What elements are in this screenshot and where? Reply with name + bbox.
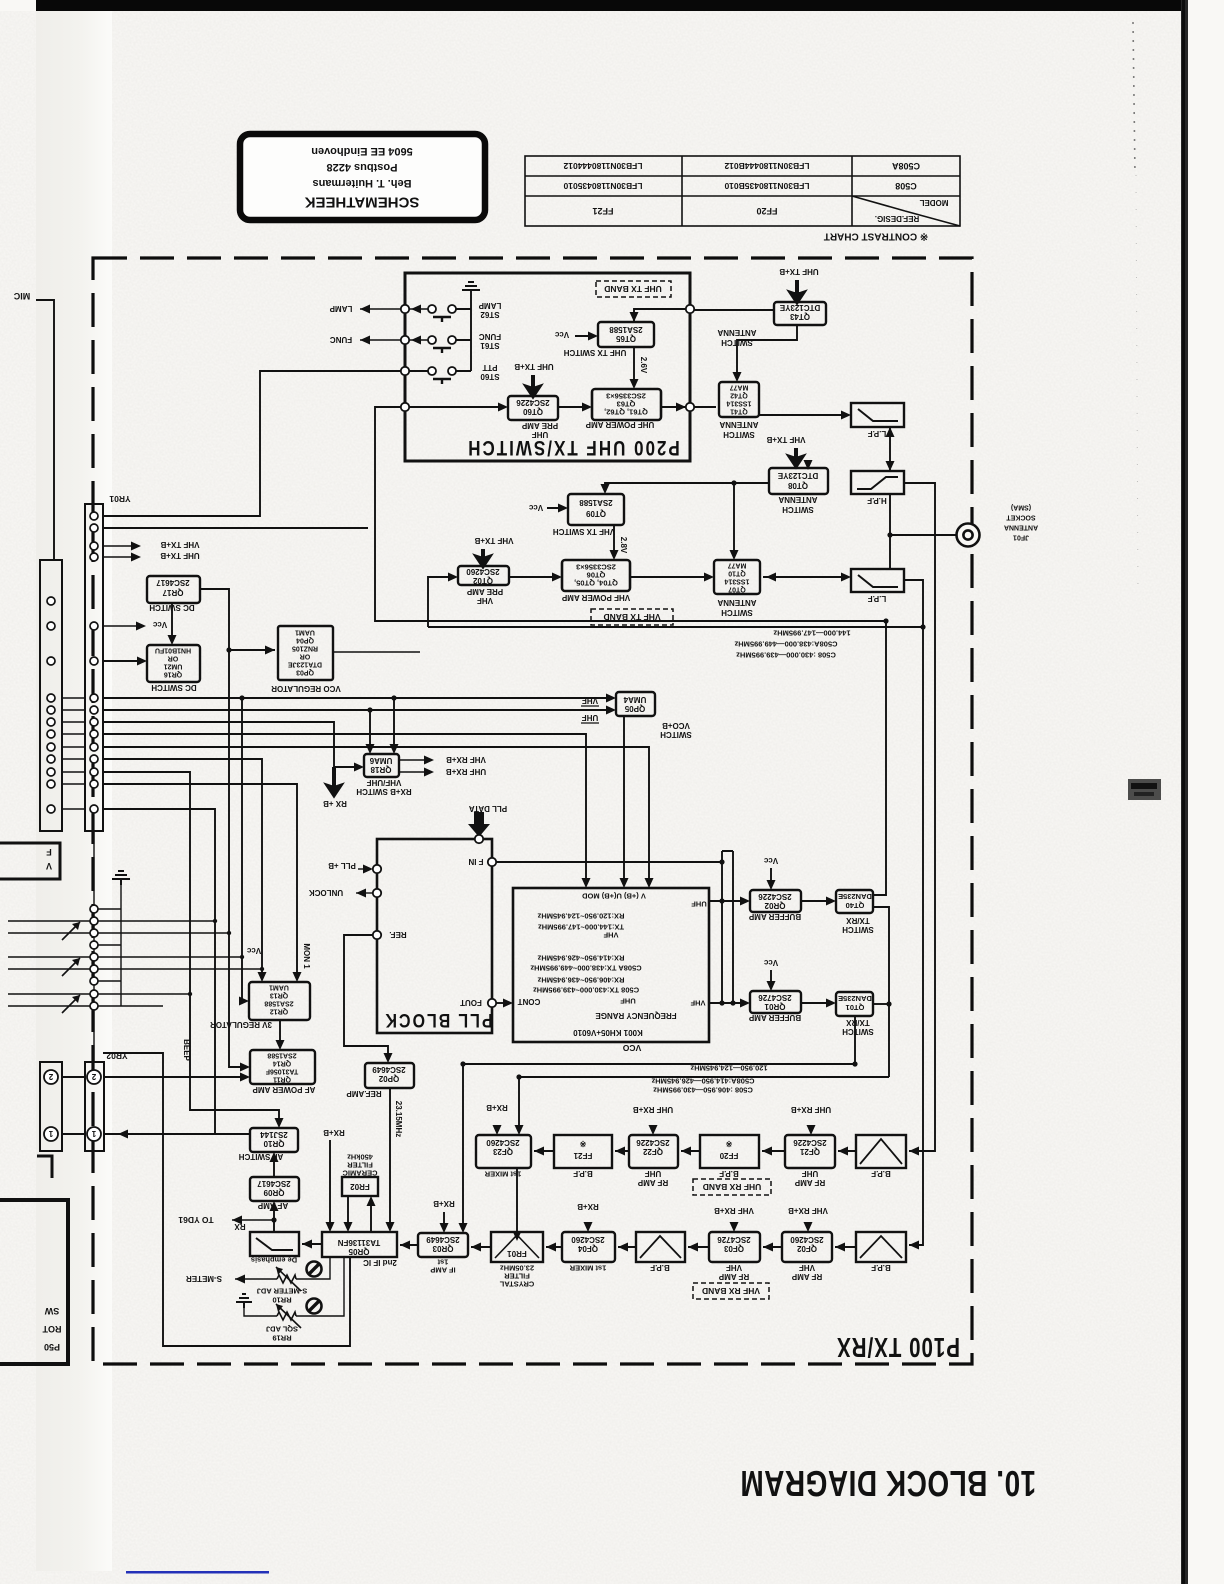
wire QT65 collector loop <box>634 309 686 322</box>
svg-text:ST60: ST60 <box>480 372 500 381</box>
svg-text:CONT: CONT <box>518 997 541 1006</box>
svg-text:2SC4726: 2SC4726 <box>717 1235 751 1244</box>
wire PLL REF to QP02 <box>344 935 388 1060</box>
filter H.P.F <box>851 471 904 494</box>
top scan bar <box>36 0 1182 11</box>
svg-text:PRE AMP: PRE AMP <box>466 587 503 596</box>
svg-text:※: ※ <box>725 1139 732 1148</box>
svg-text:C508A:414.950—426.945MHz: C508A:414.950—426.945MHz <box>651 1076 754 1085</box>
svg-text:2SC4726: 2SC4726 <box>758 993 792 1002</box>
svg-text:REF.DESIG.: REF.DESIG. <box>875 214 919 223</box>
potentiometer RR19 <box>277 1312 296 1320</box>
svg-text:UHF: UHF <box>645 1169 662 1178</box>
svg-text:2SA1588: 2SA1588 <box>579 498 613 507</box>
wire RX+B to QR03 <box>443 1212 445 1230</box>
svg-text:TX/RX: TX/RX <box>846 916 870 925</box>
svg-text:QT06: QT06 <box>587 571 606 580</box>
svg-text:LFB30N1180435B010: LFB30N1180435B010 <box>724 181 809 191</box>
wire Vcc to QT65 <box>575 335 595 337</box>
svg-text:UNLOCK: UNLOCK <box>309 888 343 897</box>
svg-text:QT41: QT41 <box>730 408 748 415</box>
wire VHF pre-amp input riser <box>428 577 455 627</box>
wire 2.6V QT65 to UHF PA <box>633 347 635 386</box>
svg-text:3V REGULATOR: 3V REGULATOR <box>210 1020 272 1029</box>
svg-text:TO YD61: TO YD61 <box>178 1215 213 1225</box>
svg-text:QR13: QR13 <box>270 992 288 999</box>
svg-text:(SMA): (SMA) <box>1011 504 1031 511</box>
svg-text:VHF TX+B: VHF TX+B <box>160 540 199 549</box>
antenna socket JF01 <box>957 524 980 547</box>
wire row734 to VCO V+B <box>103 734 586 885</box>
diode switch QT41/QT42 <box>719 382 759 417</box>
svg-text:ST62: ST62 <box>480 310 500 319</box>
svg-text:SWITCH: SWITCH <box>782 505 814 514</box>
svg-text:2SC4226: 2SC4226 <box>636 1138 670 1147</box>
de-emphasis curve <box>256 1238 293 1250</box>
svg-text:PTT: PTT <box>482 363 497 372</box>
svg-text:VHF TX+B: VHF TX+B <box>766 435 805 444</box>
svg-text:CRYSTAL: CRYSTAL <box>499 1279 534 1288</box>
L.P.F curve VHF <box>858 575 898 587</box>
svg-text:QR11: QR11 <box>273 1076 291 1083</box>
wire audio loop to QR05 <box>103 1053 350 1346</box>
wire row722 to QR18 and RX+B <box>103 722 361 790</box>
connector left cut strip B <box>40 1062 62 1151</box>
svg-text:1st MIXER: 1st MIXER <box>484 1169 521 1178</box>
wire QR17 to QR16 <box>171 603 173 642</box>
svg-text:RX+B: RX+B <box>323 1128 345 1137</box>
svg-text:RF AMP: RF AMP <box>794 1178 825 1187</box>
svg-text:MIC: MIC <box>13 291 30 301</box>
svg-text:QT42: QT42 <box>730 392 748 399</box>
wire QT01 bottom LO <box>463 1016 855 1230</box>
svg-text:1SS314: 1SS314 <box>726 400 751 407</box>
svg-text:UMA6: UMA6 <box>369 756 392 765</box>
wire VHF PA to QT07 <box>630 576 711 578</box>
ground SQL pot <box>236 1294 252 1308</box>
thick feed arrows TX+B <box>328 280 803 795</box>
amplifier UHF POWER AMP QT61-63 <box>592 389 661 420</box>
amplifier VHF POWER AMP QT04-06 <box>562 560 630 591</box>
wire VHF RX riser x923 <box>904 580 923 1245</box>
svg-text:2SC4260: 2SC4260 <box>571 1235 605 1244</box>
svg-text:VHF: VHF <box>690 998 705 1007</box>
stamp SCHEMATHEEK box <box>240 134 485 220</box>
svg-text:FF21: FF21 <box>592 206 613 216</box>
wire RX to YD61 branch <box>232 1219 274 1221</box>
switch QP05 VCO+B <box>616 692 655 716</box>
svg-text:QF03: QF03 <box>723 1244 744 1253</box>
svg-text:RF AMP: RF AMP <box>637 1178 668 1187</box>
wire QR17 feed <box>200 589 247 1067</box>
svg-text:OR: OR <box>300 653 311 660</box>
svg-text:DC SWITCH: DC SWITCH <box>149 603 195 612</box>
wire FR02 to QR05 <box>348 1196 371 1232</box>
svg-text:FF20: FF20 <box>719 1151 738 1160</box>
svg-text:P200 UHF TX/SWITCH: P200 UHF TX/SWITCH <box>466 435 680 458</box>
svg-text:DTC123YE: DTC123YE <box>777 471 818 480</box>
svg-text:YR01: YR01 <box>109 494 131 504</box>
wire S-METER pot <box>235 1257 330 1279</box>
svg-text:SOCKET: SOCKET <box>1006 514 1036 521</box>
svg-text:ANTENNA: ANTENNA <box>719 420 758 429</box>
wire QT02 to VHF PA <box>509 576 559 578</box>
svg-text:TX/RX: TX/RX <box>846 1018 870 1027</box>
svg-text:QR16: QR16 <box>164 671 182 678</box>
wire UHF RX riser x935 <box>904 483 935 1151</box>
wire ST62 LAMP out <box>360 308 428 310</box>
wire UHF LO to QF23 <box>519 1077 889 1132</box>
wire UHF pre-amp input <box>405 406 505 408</box>
wire pot rows left stubs <box>8 921 90 1006</box>
svg-text:5604 EE Eindhoven: 5604 EE Eindhoven <box>311 145 413 157</box>
amplifier QF02 <box>782 1232 832 1262</box>
transistor QT02 <box>458 566 509 585</box>
svg-text:C508 :406.950—430.995MHz: C508 :406.950—430.995MHz <box>653 1085 753 1094</box>
svg-text:RNZ105: RNZ105 <box>292 645 318 652</box>
PLL DATA arrow <box>468 812 490 837</box>
svg-text:F: F <box>46 847 52 857</box>
svg-text:2: 2 <box>48 1072 53 1081</box>
svg-text:VHF: VHF <box>799 1263 815 1272</box>
B.P.F bowtie VHF <box>860 1236 902 1258</box>
svg-text:QR17: QR17 <box>162 588 183 597</box>
svg-text:DAN235E: DAN235E <box>838 892 872 901</box>
svg-text:QT08: QT08 <box>787 481 808 490</box>
svg-text:FREQUENCY RANGE: FREQUENCY RANGE <box>595 1011 677 1020</box>
transistor QT09 <box>568 494 624 525</box>
wire YR02-1 to QR10 <box>62 1133 250 1135</box>
wire switch common to ground <box>456 290 471 371</box>
svg-text:2SC3356×3: 2SC3356×3 <box>606 392 646 401</box>
svg-text:QR10: QR10 <box>263 1139 284 1148</box>
svg-text:QT43: QT43 <box>789 312 810 321</box>
svg-text:AF AMP: AF AMP <box>257 1201 288 1210</box>
svg-text:QF23: QF23 <box>492 1147 513 1156</box>
wire QR05 to de-emph <box>302 1243 322 1245</box>
filter B.P.F UHF input <box>856 1135 906 1168</box>
svg-text:BEEP: BEEP <box>182 1039 191 1061</box>
svg-text:ROT: ROT <box>42 1324 62 1334</box>
svg-text:LFB30N1180435010: LFB30N1180435010 <box>563 181 642 191</box>
svg-text:RX+B SWITCH: RX+B SWITCH <box>356 787 412 796</box>
filter L.P.F UHF <box>851 403 904 427</box>
connector P501 ROTARY SW box <box>0 1200 68 1364</box>
svg-text:VHF TX SWITCH: VHF TX SWITCH <box>553 527 615 536</box>
svg-text:UHF RX+B: UHF RX+B <box>633 1105 673 1114</box>
wire SQL pot <box>244 1257 344 1316</box>
circled digit pins YR02 <box>44 1070 101 1141</box>
svg-text:※: ※ <box>579 1139 586 1148</box>
svg-text:L.P.F: L.P.F <box>868 429 887 438</box>
svg-text:VHF TX BAND: VHF TX BAND <box>603 612 660 622</box>
svg-text:2SC4260: 2SC4260 <box>486 1138 520 1147</box>
svg-text:MA77: MA77 <box>730 384 749 391</box>
svg-text:V (+B) U(+B) MOD: V (+B) U(+B) MOD <box>582 891 646 900</box>
svg-text:1: 1 <box>48 1129 53 1138</box>
svg-text:QR01: QR01 <box>764 1002 785 1011</box>
mixer QF04 <box>562 1232 615 1262</box>
svg-text:BUFFER AMP: BUFFER AMP <box>748 912 801 921</box>
wire L stub below YR02 <box>37 1156 52 1178</box>
wire UHF PA to edge <box>661 406 686 408</box>
svg-text:QT63: QT63 <box>617 400 636 409</box>
svg-text:DTA123JE: DTA123JE <box>288 661 322 668</box>
wire row710 to QP05 UHF <box>103 710 613 751</box>
wire HPF to antenna junction <box>890 494 957 569</box>
svg-text:VHF RX+B: VHF RX+B <box>714 1206 754 1215</box>
svg-text:L.P.F: L.P.F <box>868 594 887 603</box>
wire Vcc to QR01 <box>770 970 772 988</box>
svg-text:2SC4226: 2SC4226 <box>516 398 550 407</box>
wire VHF TX trunk <box>428 626 923 628</box>
svg-text:1st MIXER: 1st MIXER <box>569 1263 606 1272</box>
wire de-emph to QR09 <box>273 1155 275 1232</box>
svg-text:RF AMP: RF AMP <box>718 1272 749 1281</box>
transistor QR01 <box>750 991 801 1013</box>
svg-text:UHF: UHF <box>691 899 707 908</box>
svg-text:C508: C508 <box>895 181 917 191</box>
svg-text:SW: SW <box>44 1306 59 1316</box>
filter B.P.F VHF 2nd <box>636 1232 685 1262</box>
svg-text:ST61: ST61 <box>480 341 500 350</box>
svg-text:UHF TX SWITCH: UHF TX SWITCH <box>563 348 626 357</box>
svg-text:Vcc: Vcc <box>152 620 167 629</box>
L.P.F curve UHF <box>858 409 898 421</box>
label box VHF RX BAND <box>693 1283 769 1299</box>
wire row759 Vcc to QR12 <box>103 759 262 979</box>
wire to QR16 <box>103 660 144 662</box>
svg-text:CERAMIC: CERAMIC <box>342 1168 378 1177</box>
svg-text:MA77: MA77 <box>728 562 747 569</box>
svg-text:2SA1588: 2SA1588 <box>267 1052 296 1059</box>
svg-text:Vcc: Vcc <box>528 503 543 512</box>
svg-text:QT60: QT60 <box>522 407 543 416</box>
potentiometer RR10 <box>277 1275 296 1283</box>
wire VCOREG output <box>333 651 420 653</box>
svg-text:FUNC: FUNC <box>330 335 352 344</box>
svg-text:DC SWITCH: DC SWITCH <box>151 683 197 692</box>
svg-text:VHF TX+B: VHF TX+B <box>474 536 513 545</box>
B.P.F bowtie UHF <box>860 1139 902 1164</box>
svg-text:QR18: QR18 <box>370 765 391 774</box>
svg-text:H.P.F: H.P.F <box>867 496 887 505</box>
faint fold dotted line <box>1133 22 1135 175</box>
svg-text:UHF: UHF <box>620 996 636 1005</box>
svg-text:QT07: QT07 <box>728 586 746 593</box>
wire strip ties <box>62 698 85 809</box>
P100 TX/RX dashed board outline <box>93 258 972 1364</box>
TABLE <box>525 156 960 226</box>
svg-text:SWITCH: SWITCH <box>660 730 692 739</box>
wire Vcc to QT09 <box>547 507 565 509</box>
amplifier QR09 AF <box>250 1177 299 1201</box>
wire VHF TX+B row <box>103 545 131 547</box>
wire 2.8V QT09 to VHF PA <box>613 525 615 557</box>
wire MIC lead <box>36 300 54 560</box>
svg-text:QT40: QT40 <box>846 901 865 910</box>
svg-text:2SC3356×3: 2SC3356×3 <box>576 563 616 572</box>
svg-text:2: 2 <box>91 1072 96 1081</box>
wire VCO UHF out <box>709 900 747 902</box>
left strip A pin circles <box>47 597 55 813</box>
svg-text:P50: P50 <box>44 1342 60 1352</box>
svg-text:QF04: QF04 <box>577 1244 598 1253</box>
svg-text:FILTER: FILTER <box>504 1271 530 1280</box>
wire QT01 upper stub <box>873 1003 889 1005</box>
adjust screw SQL <box>307 1299 322 1314</box>
svg-text:ANTENNA: ANTENNA <box>778 495 817 504</box>
BOXES <box>147 273 904 1257</box>
wire QF23 to FR01 <box>516 1168 518 1236</box>
svg-text:SWITCH: SWITCH <box>721 338 753 347</box>
switch QR18 RX+B <box>364 754 399 777</box>
svg-text:10. BLOCK DIAGRAM: 10. BLOCK DIAGRAM <box>740 1463 1036 1503</box>
svg-text:MON 1: MON 1 <box>302 943 311 969</box>
svg-text:QR05: QR05 <box>348 1247 369 1256</box>
svg-text:BUFFER AMP: BUFFER AMP <box>748 1013 801 1022</box>
svg-text:SWITCH: SWITCH <box>721 608 753 617</box>
svg-text:VHF: VHF <box>603 930 618 939</box>
wire gnd rail left <box>98 885 163 1006</box>
svg-text:1st: 1st <box>437 1257 448 1266</box>
svg-text:UHF RX+B: UHF RX+B <box>446 767 486 776</box>
svg-text:QF22: QF22 <box>642 1147 663 1156</box>
svg-text:PRE AMP: PRE AMP <box>521 421 558 430</box>
svg-text:VCO+B: VCO+B <box>662 721 690 730</box>
svg-text:Vcc: Vcc <box>246 946 261 955</box>
wire VCO buffer pair risers <box>722 851 733 1003</box>
svg-text:VHF: VHF <box>477 596 493 605</box>
svg-text:2SA1588: 2SA1588 <box>609 325 643 334</box>
right scan strip <box>1181 0 1188 1584</box>
connector YR02 strip <box>85 1062 104 1151</box>
svg-text:B.P.F: B.P.F <box>871 1169 891 1178</box>
svg-text:RF AMP: RF AMP <box>791 1272 822 1281</box>
wire row698 to QP05 VHF <box>103 698 613 751</box>
IC QR05 TA31136FN <box>322 1232 397 1257</box>
label box UHF TX BAND <box>596 281 671 297</box>
svg-text:S-METER: S-METER <box>186 1274 222 1283</box>
switch QT40 <box>836 890 873 913</box>
svg-text:2SC4260: 2SC4260 <box>790 1235 824 1244</box>
svg-text:RX:406.950~436.945MHz: RX:406.950~436.945MHz <box>537 975 624 984</box>
svg-text:FOUT: FOUT <box>460 998 482 1007</box>
svg-text:LAMP: LAMP <box>478 301 501 310</box>
svg-text:TX:144.000~147.995MHz: TX:144.000~147.995MHz <box>538 922 624 931</box>
svg-text:QR02: QR02 <box>764 901 785 910</box>
wire ST60 PTT to YR01 <box>103 371 428 516</box>
filter FF20 <box>700 1135 759 1168</box>
connector VF partial box <box>0 843 60 879</box>
svg-text:2.8V: 2.8V <box>619 537 628 554</box>
svg-text:450kHz: 450kHz <box>347 1152 373 1161</box>
wire QT40 to LO line x889 <box>873 907 889 1077</box>
big stretched labels <box>383 435 1036 1503</box>
svg-text:MODEL: MODEL <box>919 198 948 207</box>
PLL pin circles <box>373 835 496 1007</box>
filter FR02 ceramic <box>342 1177 378 1196</box>
svg-text:QP02: QP02 <box>378 1074 399 1083</box>
pot wiper arrows left <box>62 922 80 1013</box>
adjust screw S-METER <box>307 1262 322 1277</box>
svg-text:SWITCH: SWITCH <box>842 1027 874 1036</box>
YR01 pin circles <box>90 512 98 813</box>
wire Vcc row <box>103 625 136 627</box>
svg-text:OR: OR <box>168 655 179 662</box>
filter De-emphasis <box>250 1232 299 1256</box>
svg-text:VHF RX BAND: VHF RX BAND <box>702 1286 760 1296</box>
wire QT41 to LPF <box>759 414 848 416</box>
svg-text:UHF: UHF <box>802 1169 819 1178</box>
svg-text:※ CONTRAST CHART: ※ CONTRAST CHART <box>824 230 928 241</box>
svg-text:LFB30N1180444B012: LFB30N1180444B012 <box>724 161 809 171</box>
B.P.F bowtie VHF 2nd <box>640 1236 681 1258</box>
wire UHF RX chain links <box>534 1150 856 1152</box>
svg-text:QT65: QT65 <box>615 334 636 343</box>
wire YR02-2 to QR11 <box>62 1076 247 1078</box>
svg-text:2SC4649: 2SC4649 <box>426 1235 460 1244</box>
svg-text:2SA1588: 2SA1588 <box>264 1000 293 1007</box>
svg-text:QT04, QT05,: QT04, QT05, <box>574 579 618 588</box>
transistor QT60 <box>508 396 558 420</box>
filter FF21 <box>554 1135 612 1168</box>
switch ST61 contacts <box>428 336 456 344</box>
FR01 crystal bowtie <box>495 1235 539 1258</box>
P200 UHF TX/SWITCH block outline <box>405 273 690 461</box>
wire RX+B to QR05 <box>329 1140 331 1229</box>
svg-text:RX+B: RX+B <box>433 1199 455 1208</box>
wire LPF to HPF <box>889 427 891 471</box>
wire pot rows to bus risers <box>98 921 262 994</box>
svg-text:2SC4226: 2SC4226 <box>758 892 792 901</box>
svg-text:2SJ144: 2SJ144 <box>260 1130 288 1139</box>
svg-text:120.950—124.945MHz: 120.950—124.945MHz <box>690 1063 767 1072</box>
wire lower pin risers <box>93 831 95 1062</box>
svg-text:VHF: VHF <box>582 696 598 705</box>
wire QR18 outputs <box>399 760 430 772</box>
svg-text:V: V <box>46 861 52 871</box>
wire QR03 to QR05 <box>400 1244 418 1246</box>
svg-text:VHF: VHF <box>726 1263 742 1272</box>
svg-text:B.P.F: B.P.F <box>650 1263 670 1272</box>
svg-text:VHF POWER AMP: VHF POWER AMP <box>561 593 630 602</box>
svg-text:144.000—147.995MHz: 144.000—147.995MHz <box>773 628 850 637</box>
arrowheads left <box>118 305 919 1284</box>
svg-text:AF POWER AMP: AF POWER AMP <box>252 1085 315 1094</box>
wire PLL FIN sample <box>496 861 722 863</box>
transistor QT65 <box>598 322 654 347</box>
svg-text:DTC123YE: DTC123YE <box>779 303 820 312</box>
connector YR01 strip <box>85 504 103 831</box>
blue pen line <box>126 1571 269 1574</box>
wire QT09 base loop <box>605 483 769 557</box>
filter L.P.F VHF <box>851 569 904 592</box>
wire UHF TX+B row <box>103 556 131 558</box>
svg-text:QR09: QR09 <box>263 1188 284 1197</box>
svg-text:QT02: QT02 <box>472 576 493 585</box>
svg-text:QF02: QF02 <box>796 1244 817 1253</box>
switch QR10 AF <box>250 1128 298 1152</box>
svg-text:C508A: C508A <box>891 161 920 171</box>
rotated small texts <box>182 357 648 1137</box>
wire QR12 to QR11 <box>279 1020 281 1047</box>
left margin noise <box>36 11 112 1571</box>
svg-text:2SC4260: 2SC4260 <box>466 567 500 576</box>
transistor QR16 <box>147 645 200 682</box>
svg-text:FF20: FF20 <box>756 206 777 216</box>
svg-text:PLL +B: PLL +B <box>328 861 356 870</box>
